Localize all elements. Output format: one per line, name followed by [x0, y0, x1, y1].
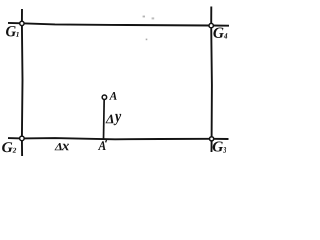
label delta-x — [54, 143, 69, 150]
label A-prime — [98, 140, 107, 150]
label G1 — [6, 26, 19, 37]
label G3 — [213, 142, 226, 153]
wire left edge (through G1 and G2) — [21, 9, 24, 156]
wire right edge (through G4 and G3) — [210, 7, 213, 153]
wire top edge (G1 to G4 with cross arms) — [8, 23, 229, 26]
node G3 (open circle) — [210, 137, 214, 141]
node G2 (open circle) — [20, 136, 25, 141]
node A (open circle) — [102, 95, 107, 100]
label A — [109, 92, 117, 100]
label delta-y — [105, 114, 121, 125]
wire bottom edge (G2 to G3 with cross arms) — [8, 138, 229, 139]
label G4 — [213, 28, 227, 39]
wire A to A' (delta-y segment) — [103, 97, 106, 140]
label G2 — [2, 142, 16, 152]
node G4 (open circle) — [209, 23, 213, 27]
node G1 (open circle) — [20, 21, 24, 25]
